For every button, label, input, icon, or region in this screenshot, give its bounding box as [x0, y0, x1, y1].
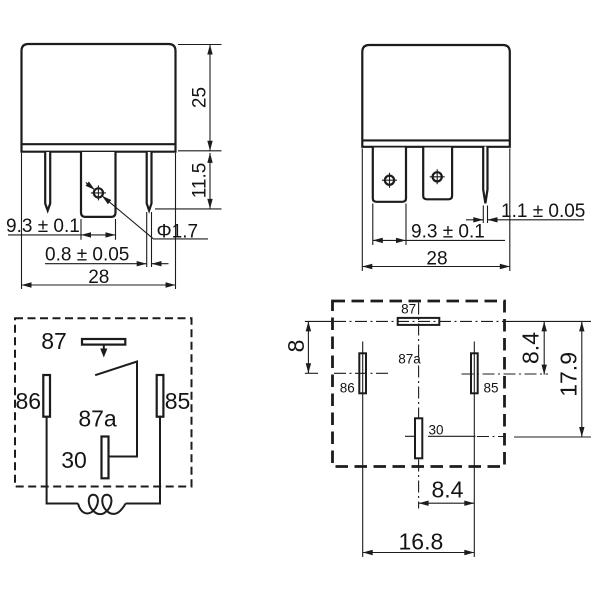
- extension line blade left down: [80, 219, 82, 240]
- relay body (side view A): [22, 44, 176, 152]
- extension line thin pin left down: [146, 212, 148, 267]
- pin 85 blade (view B middle): [423, 148, 452, 200]
- svg-text:87: 87: [401, 302, 416, 317]
- centerline 30 row: [405, 435, 591, 438]
- pin 87 slot: [398, 318, 440, 325]
- svg-text:9.3 ± 0.1: 9.3 ± 0.1: [411, 221, 485, 242]
- dimension line 16.8: [363, 552, 475, 554]
- svg-text:Φ1.7: Φ1.7: [157, 221, 199, 242]
- extension lines 28 view B: [362, 149, 510, 272]
- dimension line 25: [209, 45, 211, 151]
- pin 87 thin blade (view B right): [483, 147, 487, 204]
- terminal 30 bar: [102, 437, 109, 479]
- svg-text:28: 28: [88, 267, 109, 288]
- svg-text:11.5: 11.5: [189, 163, 210, 199]
- hole left blade: [385, 176, 394, 185]
- terminal 87 contact bar: [82, 339, 125, 345]
- dimension line 8: [307, 321, 309, 373]
- svg-text:85: 85: [483, 381, 498, 396]
- centerline 87 row solid parts: [305, 320, 591, 322]
- pin 86 slot: [359, 353, 366, 393]
- terminal 85 bar: [157, 375, 164, 417]
- centerline 87 row dashdot: [334, 320, 504, 322]
- svg-text:9.3 ± 0.1: 9.3 ± 0.1: [6, 216, 80, 237]
- schematic dashed boundary: [15, 318, 192, 486]
- extension lines 1.1: [483, 206, 487, 224]
- dimension line 11.5: [209, 153, 211, 209]
- svg-text:28: 28: [426, 249, 447, 270]
- dimension line 1.1: [466, 219, 584, 221]
- svg-text:8.4: 8.4: [432, 477, 464, 503]
- coil lead 86: [47, 417, 78, 504]
- pin 86 blade (view B left): [373, 148, 406, 202]
- coil lead 85: [126, 417, 161, 504]
- vertical centerline 87-30 axis: [418, 303, 420, 509]
- extension lines 9.3 view B: [373, 204, 406, 246]
- dimension line 28 view A: [22, 284, 176, 286]
- terminal 86 bar: [43, 375, 50, 417]
- extension line pin bottom right: [155, 208, 222, 210]
- dimension line 9.3 view A: [8, 234, 116, 236]
- pin 85 slot: [471, 353, 478, 393]
- dimension line 28 view B: [362, 266, 510, 268]
- dimension line 17.9: [581, 321, 583, 437]
- extension line thin pin right down: [151, 212, 153, 267]
- pin 86 axis line: [362, 342, 364, 558]
- dimension line 8.4 bottom: [419, 502, 475, 504]
- extension line body right down: [175, 153, 177, 289]
- extension line body top right: [178, 44, 222, 46]
- svg-text:86: 86: [340, 381, 355, 396]
- svg-text:85: 85: [165, 388, 191, 414]
- relay base band (side view B): [362, 139, 510, 141]
- movable contact arm and wire to 30: [95, 362, 137, 457]
- coil: [78, 495, 126, 514]
- crosshair middle blade: [430, 169, 445, 184]
- dimension line 8.4 right: [543, 321, 545, 374]
- svg-text:30: 30: [61, 447, 87, 473]
- pin 30 blade (center, side view A): [81, 152, 116, 217]
- extension line body bottom right: [178, 150, 222, 152]
- mounting hole Φ1.7: [94, 188, 103, 197]
- svg-text:8.4: 8.4: [518, 332, 544, 364]
- svg-text:0.8 ± 0.05: 0.8 ± 0.05: [45, 245, 129, 266]
- dimension line 0.8: [45, 263, 169, 265]
- svg-text:17.9: 17.9: [555, 352, 581, 397]
- relay base band (side view A): [22, 143, 176, 145]
- svg-text:86: 86: [16, 388, 42, 414]
- crosshair left blade: [382, 173, 397, 188]
- pin left (side view A): [45, 152, 50, 211]
- arrow to movable contact: [103, 345, 105, 350]
- centerline 85 row: [462, 373, 549, 375]
- dimension line 9.3 view B: [373, 239, 505, 241]
- leader line to hole: [86, 182, 208, 239]
- svg-text:16.8: 16.8: [399, 529, 444, 555]
- svg-text:8: 8: [283, 340, 309, 353]
- hole middle blade: [433, 172, 442, 181]
- pin right (side view A): [147, 152, 152, 211]
- svg-text:87a: 87a: [78, 405, 117, 431]
- svg-text:1.1 ± 0.05: 1.1 ± 0.05: [501, 201, 585, 222]
- svg-text:30: 30: [428, 422, 443, 437]
- pin 85 axis line: [473, 342, 475, 558]
- extension line body left down: [21, 153, 23, 289]
- svg-text:87: 87: [41, 328, 67, 354]
- svg-text:25: 25: [189, 87, 210, 108]
- hole crosshair: [91, 185, 106, 200]
- centerline 86 row: [305, 372, 318, 374]
- bottom view dashed outline: [333, 301, 505, 467]
- pin 30 slot: [415, 418, 422, 458]
- relay body (side view B): [362, 45, 510, 147]
- extension line blade right down: [115, 219, 117, 240]
- svg-text:87a: 87a: [398, 351, 421, 366]
